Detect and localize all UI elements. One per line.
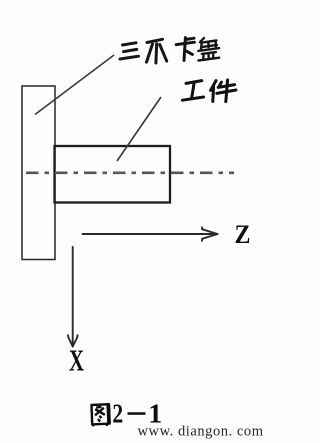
- svg-text:Z: Z: [235, 220, 251, 249]
- label text 工件 (hand-drawn glyph strokes): [182, 80, 236, 102]
- centerline (dash-dot axis of workpiece): [26, 172, 234, 175]
- char 工: [182, 81, 203, 101]
- Z axis arrow: [83, 227, 218, 240]
- char 盘: [198, 38, 219, 61]
- char 图 (hand-drawn glyph strokes): [92, 404, 110, 426]
- svg-text:www. diangon. com: www. diangon. com: [138, 423, 264, 439]
- svg-text:2: 2: [112, 398, 123, 428]
- leader line to 工件 label: [117, 97, 161, 161]
- leader line to 三爪卡盘 label: [35, 55, 114, 115]
- chuck rectangle (三爪卡盘 body): [22, 86, 55, 260]
- workpiece rectangle (工件 body): [55, 146, 171, 203]
- svg-text:X: X: [69, 343, 84, 378]
- caption em dash: [128, 412, 146, 415]
- char 三: [120, 43, 139, 59]
- char 件: [211, 80, 236, 102]
- char 卡: [176, 38, 194, 61]
- label text 三爪卡盘 (hand-drawn glyph strokes): [120, 38, 219, 63]
- X axis arrow: [68, 247, 78, 347]
- char 爪: [147, 39, 167, 63]
